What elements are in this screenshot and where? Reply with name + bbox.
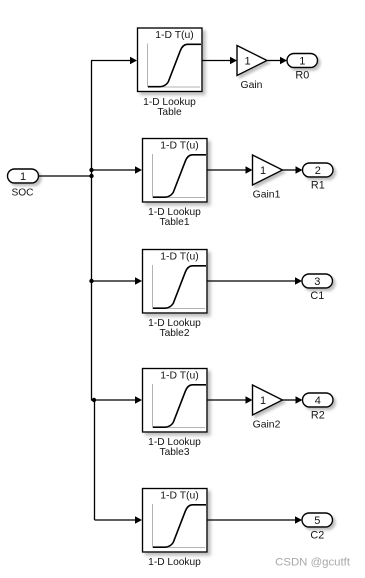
svg-text:Table3: Table3 (159, 447, 189, 458)
bus vertical wire (92, 61, 95, 521)
wire branch row3 (92, 280, 137, 282)
svg-text:Gain1: Gain1 (253, 190, 281, 201)
block 1-D Lookup Table (138, 28, 203, 92)
arrowhead into lookup table 5 (135, 516, 142, 524)
arrowhead into C2 (295, 516, 302, 524)
wire lookup table 1 to gain (202, 60, 231, 62)
wire SOC output to bus (39, 175, 92, 177)
wire branch row1 (91, 60, 131, 62)
arrowhead into lookup table 1 (130, 57, 137, 65)
svg-text:C2: C2 (310, 530, 324, 542)
svg-text:CSDN @gcutft: CSDN @gcutft (275, 557, 351, 569)
output port C1 (oval 3) (302, 274, 333, 288)
svg-text:3: 3 (314, 276, 320, 288)
svg-text:1: 1 (244, 56, 250, 68)
svg-text:1-D Lookup: 1-D Lookup (148, 557, 201, 568)
input port SOC (oval 1) (8, 169, 39, 183)
junction dot row3 (89, 279, 93, 283)
block 1-D Lookup Table3 (143, 369, 208, 433)
block 1-D Lookup Table1 (143, 139, 208, 203)
svg-text:R1: R1 (311, 180, 325, 192)
wire lookup table 5 to C2 (207, 519, 296, 521)
wire lookup table 3 to C1 (207, 280, 296, 282)
svg-text:Table2: Table2 (159, 328, 189, 339)
arrowhead into lookup table 4 (135, 396, 142, 404)
wire gain2 to R2 (283, 399, 297, 401)
svg-text:1: 1 (260, 165, 266, 177)
wire gain1 to R1 (283, 169, 297, 171)
block 1-D Lookup Table4 (143, 489, 208, 553)
wire branch row5 (95, 519, 137, 521)
wire gain to R0 (267, 60, 281, 62)
svg-text:5: 5 (314, 515, 320, 527)
output port R0 (oval 1) (287, 54, 318, 68)
arrowhead into R1 (296, 166, 303, 174)
wire lookup table 4 to gain2 (207, 399, 247, 401)
svg-text:Gain: Gain (241, 80, 263, 91)
svg-text:R0: R0 (295, 70, 309, 82)
block 1-D Lookup Table2 (143, 250, 208, 314)
output port C2 (oval 5) (302, 513, 333, 527)
svg-text:Table: Table (157, 107, 182, 118)
arrowhead into lookup table 3 (135, 277, 142, 285)
output port R2 (oval 4) (303, 393, 334, 407)
gain block Gain2 (253, 385, 283, 415)
arrowhead into R2 (296, 396, 303, 404)
arrowhead into gain (230, 57, 237, 65)
gain block Gain (237, 46, 267, 76)
arrowhead into gain2 (246, 396, 253, 404)
wire lookup table 2 to gain1 (207, 169, 247, 171)
arrowhead into C1 (295, 277, 302, 285)
junction dot SOC (89, 174, 93, 178)
output port R1 (oval 2) (303, 163, 334, 177)
svg-text:Table1: Table1 (159, 217, 189, 228)
arrowhead into lookup table 2 (135, 166, 142, 174)
wire branch row2 (92, 169, 137, 171)
arrowhead into gain1 (246, 166, 253, 174)
junction dot row2 (89, 168, 93, 172)
svg-text:4: 4 (315, 395, 321, 407)
svg-text:1: 1 (299, 56, 305, 68)
svg-text:SOC: SOC (11, 188, 33, 199)
svg-text:C1: C1 (310, 290, 324, 302)
svg-text:1: 1 (260, 395, 266, 407)
junction dot row4 (92, 398, 96, 402)
svg-text:1: 1 (20, 171, 26, 183)
arrowhead into R0 (280, 57, 287, 65)
svg-text:Gain2: Gain2 (253, 420, 281, 431)
wire branch row4 (94, 399, 136, 401)
svg-text:2: 2 (315, 165, 321, 177)
gain block Gain1 (253, 155, 283, 185)
svg-text:R2: R2 (311, 410, 325, 422)
